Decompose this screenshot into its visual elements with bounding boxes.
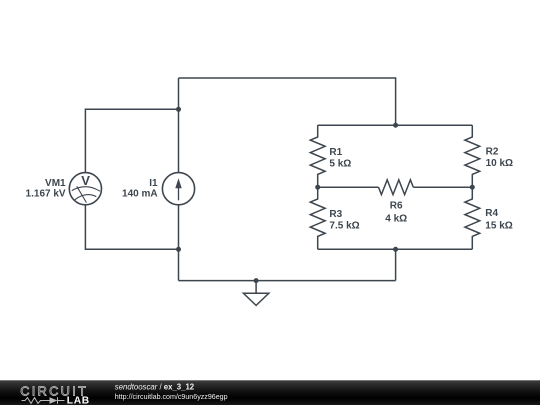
resistor R6 xyxy=(379,180,414,195)
svg-text:V: V xyxy=(81,173,90,188)
junction node network bottom center xyxy=(393,247,398,252)
svg-text:R4: R4 xyxy=(485,208,498,219)
svg-text:VM1: VM1 xyxy=(45,178,66,189)
svg-text:I1: I1 xyxy=(149,178,158,189)
voltmeter VM1 xyxy=(69,173,101,205)
junction node A (I1 top / VM1 wire) xyxy=(176,107,181,112)
svg-text:1.167 kV: 1.167 kV xyxy=(26,189,66,200)
wire ground rail xyxy=(179,280,396,282)
junction node ground tap xyxy=(254,278,259,283)
current source I1 xyxy=(162,173,194,205)
svg-text:R6: R6 xyxy=(390,201,403,212)
resistor R1 xyxy=(310,125,325,187)
svg-text:4 kΩ: 4 kΩ xyxy=(385,213,407,224)
junction node middle rail left xyxy=(315,185,320,190)
svg-text:http://circuitlab.com/c9un6yzz: http://circuitlab.com/c9un6yzz96egp xyxy=(115,393,228,401)
resistor R4 xyxy=(465,187,480,249)
wire network top rail xyxy=(318,124,473,126)
svg-text:5 kΩ: 5 kΩ xyxy=(329,159,351,170)
junction node network top center xyxy=(393,123,398,128)
junction node middle rail right xyxy=(470,185,475,190)
svg-text:R1: R1 xyxy=(329,147,342,158)
svg-text:10 kΩ: 10 kΩ xyxy=(486,158,513,169)
wire network bottom rail xyxy=(318,248,473,250)
svg-text:R3: R3 xyxy=(329,209,342,220)
CircuitLab logo zigzag-diode icon xyxy=(22,397,65,404)
footer bar xyxy=(0,380,540,405)
svg-text:LAB: LAB xyxy=(67,395,90,405)
wire network bottom drop xyxy=(395,249,397,280)
wire I1 top vertical xyxy=(178,78,180,173)
wire top rail to network xyxy=(179,78,396,125)
svg-text:140 mA: 140 mA xyxy=(122,189,158,200)
resistor R2 xyxy=(465,125,480,187)
wire I1 bottom vertical xyxy=(178,205,180,281)
svg-text:R2: R2 xyxy=(486,147,499,158)
wire VM1 top to node A xyxy=(85,109,178,172)
svg-text:7.5 kΩ: 7.5 kΩ xyxy=(329,221,359,232)
resistor R3 xyxy=(310,187,325,249)
wire middle rail right xyxy=(413,186,472,188)
wire middle rail left xyxy=(318,186,379,188)
ground xyxy=(243,281,268,306)
svg-text:sendtooscar / ex_3_12: sendtooscar / ex_3_12 xyxy=(115,383,195,392)
junction node B (I1 bottom / VM1 wire) xyxy=(176,247,181,252)
wire VM1 bottom to node B xyxy=(85,205,178,250)
svg-text:15 kΩ: 15 kΩ xyxy=(485,221,512,232)
